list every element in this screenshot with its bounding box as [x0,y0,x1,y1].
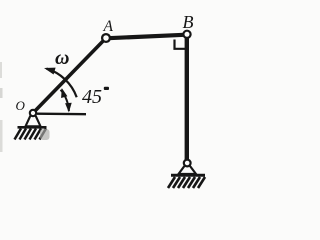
pin joint A [102,34,110,42]
lower pin support : hatching [168,177,205,188]
pin support O : triangle [26,116,41,127]
paper background [0,0,231,206]
lower pin support : pivot circle [184,160,191,167]
coupler bar AB [108,35,184,38]
svg-text:O: O [16,98,26,113]
angle arc 45deg with arrowheads [61,90,69,111]
lower pin support : ground line [171,174,205,177]
scan smudge near O support [40,129,50,140]
right-angle marker at B [175,40,186,49]
lower pin support : triangle [179,166,197,175]
omega arrowhead [44,68,56,75]
horizontal reference line from O [37,112,86,115]
svg-text:ω: ω [55,47,69,69]
pin support O : ground line [18,126,47,129]
pin support O : pivot circle [30,110,36,116]
pin support O : hatching [15,129,47,140]
omega rotation arrow arc [47,69,77,98]
pin joint B [183,31,190,38]
svg-text:B: B [183,12,194,32]
svg-text:45: 45 [82,86,102,108]
degree mark [104,87,109,90]
svg-text:A: A [103,18,114,35]
crank OA [33,38,106,113]
vertical link B to lower pin [185,36,189,160]
scan streak left edge [0,62,2,78]
